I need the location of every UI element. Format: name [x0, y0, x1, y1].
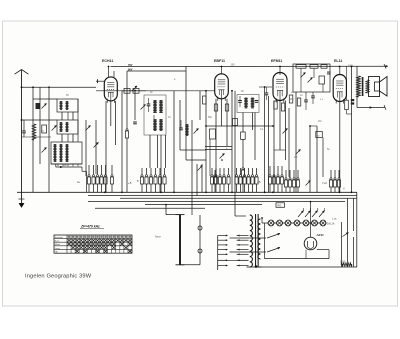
svg-text:5x0,1A: 5x0,1A [327, 223, 335, 226]
svg-text:+5: +5 [257, 180, 261, 184]
svg-text:13V: 13V [231, 64, 236, 67]
svg-text:EL11: EL11 [334, 59, 342, 63]
svg-text:5000: 5000 [340, 262, 346, 264]
svg-text:2M: 2M [290, 98, 293, 101]
svg-text:78V: 78V [128, 64, 133, 67]
svg-text:RG: RG [278, 204, 282, 208]
svg-text:X: X [343, 187, 345, 191]
svg-text:7+0: 7+0 [322, 181, 327, 185]
svg-text:AZ11: AZ11 [316, 233, 324, 237]
svg-text:Netz: Netz [155, 235, 161, 239]
svg-text:Schalter: Schalter [55, 236, 63, 239]
svg-text:Lang: Lang [55, 248, 61, 250]
svg-text:Ingelen Geographic 39W: Ingelen Geographic 39W [25, 273, 92, 279]
svg-text:Mittel: Mittel [55, 243, 61, 246]
svg-text:3+: 3+ [77, 180, 81, 184]
svg-text:ECH11: ECH11 [102, 59, 113, 63]
svg-text:86V: 86V [128, 69, 133, 72]
svg-text:1M: 1M [318, 120, 321, 123]
svg-text:EBF11: EBF11 [214, 59, 225, 63]
svg-text:+5: +5 [128, 181, 132, 185]
svg-text:EFM11: EFM11 [271, 59, 282, 63]
svg-text:ZF=479 kHz: ZF=479 kHz [80, 225, 100, 229]
svg-text:Kurz: Kurz [55, 240, 60, 243]
svg-text:0,1A: 0,1A [332, 218, 337, 221]
